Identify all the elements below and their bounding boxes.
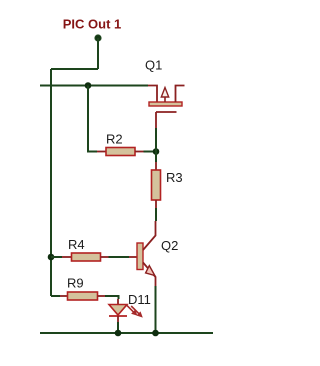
wire horizontal to left vertical [51,68,98,70]
svg-text:R2: R2 [106,132,123,147]
pin D11 anode [117,299,119,305]
Q1 gate pin down [155,112,157,128]
svg-text:R3: R3 [166,170,183,185]
transistor Q2 (NPN) [129,221,156,286]
Q1 body arrow shaft [164,96,166,102]
pin R9 left [60,295,68,297]
pin R3 top [155,162,157,170]
terminal node PIC Out 1 [95,35,101,41]
svg-text:Q1: Q1 [145,58,162,73]
svg-text:D11: D11 [128,292,151,307]
resistor R4 [72,253,101,261]
D11 triangle [109,305,127,316]
pin R9 right [98,295,106,297]
pin R2 right [135,151,144,153]
resistor R3 [152,170,161,200]
wire junction down to R3 [155,152,157,163]
pin R4 right [101,256,109,258]
Q1 gate plate [156,111,177,113]
Q1 source pin [176,86,185,103]
Q2 collector pin [143,221,156,250]
svg-text:R4: R4 [68,237,85,252]
D11 cathode bar [109,315,127,317]
resistor R9 [68,292,98,300]
Q1 channel bar [149,102,182,106]
Q1 body arrow head [161,88,168,98]
D11 light arrow 1 [126,305,134,313]
pin R2 left [97,151,106,153]
wire ground rail [40,332,213,334]
wire R2 to gate junction [144,151,157,153]
svg-text:PIC Out 1: PIC Out 1 [63,17,122,32]
transistor Q1 (MOSFET) [148,86,185,129]
wire D11 to ground rail [117,322,119,333]
D11 light arrow 2 [131,306,139,314]
pin R4 left [62,256,72,258]
wire R9 to D11 anode [105,296,119,299]
wire from rail junction down to R2 [88,86,97,152]
wire R4 left [51,256,62,258]
resistor R2 [106,148,135,156]
junction node on top rail [85,82,92,89]
pin D11 cathode [117,316,119,322]
wire left vertical (PIC net) [50,69,52,296]
Q2 base bar [137,243,143,270]
Q2 emitter pin [143,263,156,287]
wire from terminal down [97,38,99,69]
wire R9 left from PIC net [51,295,60,297]
wire R4 to Q2 base [109,256,130,258]
Q1 drain pin from rail [148,86,157,103]
LED D11 [109,305,143,318]
junction node D11/rail [115,330,122,337]
Q2 base pin [129,256,137,258]
svg-text:Q2: Q2 [161,238,178,253]
wire R3 to Q2 collector [155,208,157,221]
Q2 emitter arrow head [146,266,155,276]
pin R3 bottom [155,200,157,208]
svg-text:R9: R9 [67,276,84,291]
junction node Q2 emitter/rail [152,330,159,337]
junction node R4 tap [48,254,55,261]
wire top rail [40,85,148,87]
wire gate to junction [155,128,157,152]
junction node gate/R2/R3 [153,148,160,155]
wire Q2 emitter to ground rail [155,286,157,333]
